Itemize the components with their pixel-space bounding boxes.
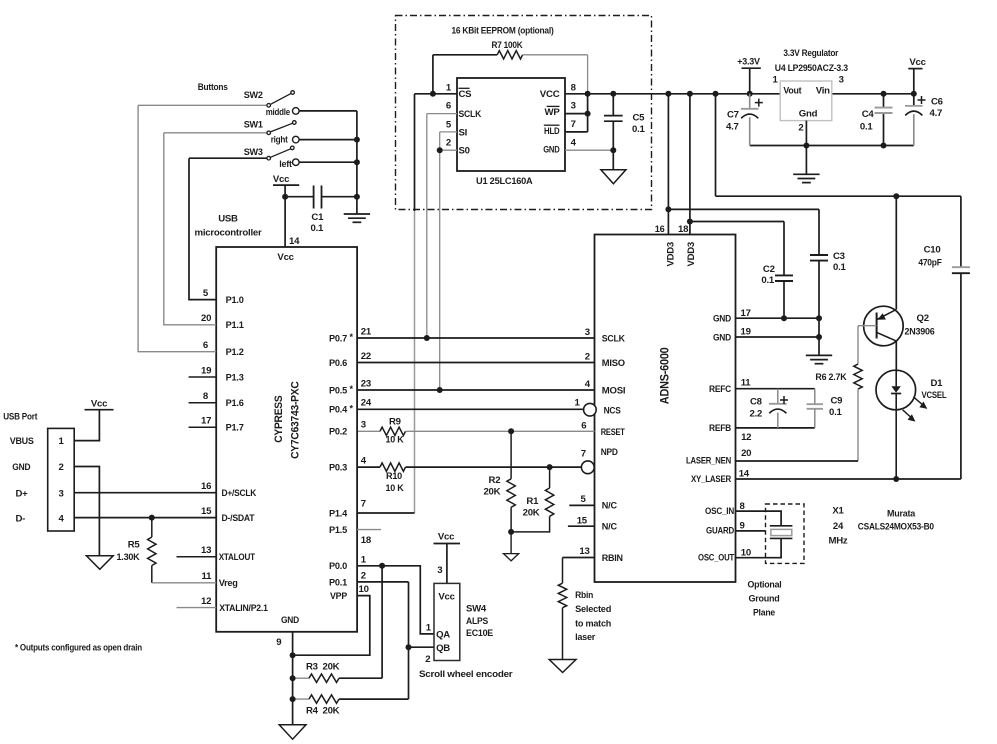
svg-text:ADNS-6000: ADNS-6000 (657, 347, 671, 404)
svg-text:R7 100K: R7 100K (492, 40, 523, 51)
svg-text:Vcc: Vcc (909, 57, 926, 68)
svg-text:CS: CS (459, 89, 473, 100)
svg-text:REFB: REFB (709, 423, 731, 434)
svg-text:7: 7 (361, 499, 366, 510)
svg-text:Selected: Selected (575, 604, 611, 615)
svg-text:10 K: 10 K (386, 483, 404, 494)
pin 18 P1.5 stub (357, 529, 381, 531)
svg-text:P1.2: P1.2 (226, 347, 244, 358)
svg-text:D+/SCLK: D+/SCLK (222, 488, 257, 499)
resistor R10 10K on P0.3 (357, 466, 380, 468)
pin 14 XY_LASER (736, 478, 961, 480)
svg-text:0.1: 0.1 (833, 262, 847, 273)
svg-text:24: 24 (833, 521, 844, 532)
wire Q2 base to R6 (858, 325, 877, 327)
svg-text:XY_LASER: XY_LASER (691, 474, 731, 485)
capacitor C6 4.7 (913, 94, 915, 105)
svg-text:CY7C63743-PXC: CY7C63743-PXC (289, 381, 301, 459)
resistor R6 2.7K (854, 364, 862, 389)
svg-text:LASER_NEN: LASER_NEN (686, 456, 731, 467)
svg-text:10 K: 10 K (386, 435, 404, 446)
svg-text:470pF: 470pF (918, 257, 942, 268)
pin 5 N/C (569, 504, 594, 506)
svg-text:SI: SI (459, 127, 468, 138)
wire GND pin 2 to ground (74, 467, 99, 556)
svg-text:Q2: Q2 (917, 313, 929, 324)
svg-text:13: 13 (579, 546, 589, 557)
transistor Q2 2N3906 (895, 196, 897, 309)
ground (Rbin) (549, 660, 576, 673)
svg-text:6: 6 (446, 101, 451, 112)
svg-text:R2: R2 (489, 475, 501, 486)
wire EEPROM SI down to MOSI line (440, 131, 457, 133)
svg-text:right: right (271, 134, 289, 145)
svg-text:EC10E: EC10E (466, 628, 494, 639)
svg-text:7: 7 (581, 449, 586, 460)
svg-text:CSALS24MOX53-B0: CSALS24MOX53-B0 (858, 522, 934, 533)
svg-text:R9: R9 (389, 416, 401, 427)
pin 11 REFC (736, 388, 815, 390)
resistor R5 1.30K (151, 518, 153, 538)
svg-text:20: 20 (741, 448, 751, 459)
svg-text:20K: 20K (323, 662, 340, 673)
wire U4 Gnd pin (805, 121, 807, 146)
svg-text:P0.6: P0.6 (329, 358, 347, 369)
wire middle contact (299, 110, 357, 112)
capacitor C10 470pF (960, 196, 962, 266)
svg-text:QB: QB (436, 643, 450, 654)
svg-text:2: 2 (446, 138, 451, 149)
svg-text:S0: S0 (459, 145, 470, 156)
svg-text:Vcc: Vcc (91, 399, 108, 410)
wire EEPROM SCLK down to SPI SCLK line (427, 113, 457, 115)
svg-text:10: 10 (359, 584, 369, 595)
wire SW2 to P1.2 (138, 105, 216, 351)
svg-text:REFC: REFC (709, 384, 731, 395)
svg-text:3: 3 (571, 101, 576, 112)
svg-text:0.1: 0.1 (860, 122, 874, 133)
svg-text:23: 23 (361, 378, 371, 389)
svg-text:C9: C9 (831, 396, 843, 407)
svg-text:P1.3: P1.3 (226, 372, 244, 383)
capacitor C5 (612, 94, 614, 115)
svg-text:4: 4 (361, 456, 367, 467)
svg-text:1: 1 (426, 622, 432, 633)
svg-text:2N3906: 2N3906 (905, 326, 935, 337)
svg-text:P1.4: P1.4 (329, 508, 348, 519)
svg-text:20K: 20K (523, 508, 540, 519)
svg-text:0.1: 0.1 (311, 223, 325, 234)
pin 16 VDD3 (667, 94, 669, 235)
svg-text:19: 19 (201, 365, 211, 376)
svg-text:Vreg: Vreg (219, 578, 238, 589)
svg-text:R6 2.7K: R6 2.7K (815, 372, 846, 383)
resistor R1 20K (549, 467, 551, 488)
svg-text:R10: R10 (386, 471, 402, 482)
laser emission arrows (913, 397, 922, 405)
svg-text:Vcc: Vcc (277, 252, 294, 263)
svg-text:4.7: 4.7 (930, 108, 943, 119)
svg-text:21: 21 (361, 326, 372, 337)
svg-text:15: 15 (201, 506, 212, 517)
ground (U4) (805, 146, 807, 175)
ground (C5) (601, 170, 626, 184)
svg-text:9: 9 (276, 637, 281, 648)
svg-text:3: 3 (839, 75, 844, 86)
wire GND pin to C5 (565, 149, 613, 151)
wire R7 left lead down to CS (432, 55, 434, 94)
svg-text:HLD: HLD (544, 126, 560, 137)
pin 15 N/C (568, 525, 595, 527)
svg-text:19: 19 (741, 327, 751, 338)
svg-text:VDD3: VDD3 (664, 242, 675, 266)
svg-text:QA: QA (436, 630, 450, 641)
svg-text:D-/SDAT: D-/SDAT (222, 513, 255, 524)
svg-text:Vcc: Vcc (438, 592, 455, 603)
pin 14 Vcc (284, 197, 286, 247)
pin 13 RBIN (563, 557, 595, 559)
svg-text:4.7: 4.7 (726, 122, 739, 133)
wire EEPROM S0 tied to SI vertical (440, 149, 457, 151)
svg-text:24: 24 (361, 398, 372, 409)
capacitor C2 0.1 (775, 274, 793, 276)
svg-text:14: 14 (289, 236, 300, 247)
svg-text:VDD3: VDD3 (685, 242, 696, 266)
svg-text:MISO: MISO (602, 358, 626, 369)
pin 7 P1.4 (357, 512, 414, 514)
svg-text:MOSI: MOSI (602, 386, 626, 397)
net NPD (R10 to ADNS pin 7, bubble) (406, 466, 582, 468)
svg-text:P1.7: P1.7 (226, 423, 244, 434)
svg-text:U4 LP2950ACZ-3.3: U4 LP2950ACZ-3.3 (775, 63, 848, 74)
svg-text:P1.0: P1.0 (226, 295, 244, 306)
ground (R1/R2) (510, 532, 512, 554)
svg-text:SCLK: SCLK (459, 109, 482, 120)
svg-text:VBUS: VBUS (10, 436, 35, 447)
wire QB (409, 646, 435, 648)
svg-text:P0.1: P0.1 (329, 577, 348, 588)
svg-text:microcontroller: microcontroller (195, 228, 263, 239)
pin 12 XTALIN/P2.1 (177, 607, 217, 609)
wire Vcc to laser driver rail (715, 94, 717, 196)
resistor R3 20K (293, 677, 309, 679)
capacitor C3 0.1 (810, 254, 828, 256)
svg-text:0.1: 0.1 (761, 275, 775, 286)
ground (R3/R4/pin9) (279, 725, 306, 740)
svg-text:R4: R4 (306, 706, 319, 717)
svg-text:GND: GND (281, 615, 299, 626)
svg-text:20K: 20K (483, 487, 500, 498)
pin 19 P1.3 (189, 376, 217, 378)
svg-text:SW2: SW2 (244, 90, 263, 101)
svg-text:12: 12 (741, 432, 751, 443)
wire VDD3-16 branch to C3 (668, 208, 819, 210)
pin 19 GND (736, 336, 820, 338)
crystal X1 resonator (770, 525, 793, 527)
net regulator ground rail (750, 145, 914, 147)
svg-text:WP: WP (545, 107, 561, 118)
svg-text:GND: GND (12, 462, 30, 473)
capacitor C7 4.7 (749, 94, 751, 108)
svg-text:20: 20 (201, 313, 211, 324)
svg-text:+3.3V: +3.3V (737, 57, 760, 68)
pin 17 P1.7 (189, 426, 217, 428)
svg-text:C1: C1 (311, 212, 324, 223)
wire P0.0 to QA (357, 566, 434, 634)
svg-text:12: 12 (201, 596, 211, 607)
svg-text:22: 22 (361, 351, 371, 362)
pin 20 LASER_NEN (736, 460, 859, 462)
svg-text:Plane: Plane (753, 608, 775, 619)
svg-text:Rbin: Rbin (575, 590, 593, 601)
svg-text:SW3: SW3 (244, 147, 263, 158)
svg-text:Buttons: Buttons (198, 82, 228, 93)
svg-text:Gnd: Gnd (799, 109, 818, 120)
EEPROM optional block dashed border (396, 16, 652, 210)
svg-text:SW4: SW4 (466, 604, 487, 615)
pin 13 XTALOUT (177, 556, 217, 558)
svg-text:NCS: NCS (604, 406, 622, 417)
svg-text:C4: C4 (862, 109, 875, 120)
svg-text:2: 2 (585, 351, 590, 362)
optional ground plane dashed box (766, 504, 805, 563)
svg-text:1.30K: 1.30K (117, 552, 140, 563)
net D- (74, 517, 216, 519)
svg-text:GUARD: GUARD (706, 526, 734, 537)
svg-text:laser: laser (575, 632, 595, 643)
svg-text:R3: R3 (306, 662, 318, 673)
svg-text:XTALOUT: XTALOUT (219, 552, 256, 563)
svg-text:Ground: Ground (749, 594, 780, 605)
svg-text:17: 17 (201, 416, 211, 427)
svg-text:RESET: RESET (601, 427, 625, 438)
net MOSI (P0.5 to ADNS pin 4) (357, 389, 594, 391)
IC CYPRESS CY7C63743-PXC (216, 247, 357, 632)
net MISO (P0.6 to ADNS pin 2) (357, 362, 594, 364)
diode D1 VCSEL (876, 370, 916, 410)
svg-text:D1: D1 (931, 378, 944, 389)
pin 9 GUARD (736, 530, 766, 532)
svg-text:OSC_OUT: OSC_OUT (698, 552, 734, 563)
svg-text:R1: R1 (526, 496, 539, 507)
capacitor C9 0.1 (807, 403, 823, 405)
wire SW1 to P1.1 (164, 133, 216, 325)
pin 8 OSC_IN (736, 511, 782, 526)
svg-text:15: 15 (577, 516, 588, 527)
wire CS to left and down to P1.4 (415, 93, 458, 95)
svg-text:P0.4: P0.4 (329, 405, 348, 416)
svg-text:VCSEL: VCSEL (922, 390, 947, 401)
svg-text:16: 16 (201, 481, 211, 492)
svg-text:RBIN: RBIN (602, 553, 623, 564)
svg-text:Vout: Vout (783, 86, 802, 97)
svg-text:0.1: 0.1 (632, 124, 646, 135)
wire left contact (299, 161, 357, 163)
svg-text:3: 3 (58, 488, 63, 499)
svg-text:P1.5: P1.5 (329, 525, 348, 536)
svg-text:CYPRESS: CYPRESS (273, 396, 285, 443)
pin 10 OSC_OUT (736, 538, 782, 557)
svg-text:MHz: MHz (829, 535, 848, 546)
svg-text:9: 9 (740, 520, 745, 531)
svg-text:SCLK: SCLK (602, 334, 625, 345)
svg-text:SW1: SW1 (244, 119, 264, 130)
svg-text:2: 2 (798, 122, 803, 133)
svg-text:C8: C8 (750, 397, 763, 408)
svg-text:3: 3 (437, 565, 442, 576)
svg-text:11: 11 (202, 571, 213, 582)
wire right contact (299, 139, 357, 141)
wire VBUS to Vcc (74, 410, 99, 441)
capacitor C1 0.1 (285, 196, 314, 198)
pin 17 GND (736, 317, 820, 319)
svg-text:C2: C2 (763, 264, 775, 275)
svg-text:GND: GND (713, 314, 731, 325)
svg-text:Vcc: Vcc (438, 532, 455, 543)
svg-text:0.1: 0.1 (829, 407, 843, 418)
svg-text:1: 1 (361, 554, 367, 565)
svg-text:GND: GND (713, 332, 731, 343)
svg-text:Vcc: Vcc (273, 174, 290, 185)
wire R7 right lead down to Vcc rail (587, 55, 589, 94)
svg-text:2.2: 2.2 (750, 408, 763, 419)
resistor R2 20K (510, 431, 512, 479)
svg-text:X1: X1 (832, 506, 844, 517)
svg-text:14: 14 (739, 469, 750, 480)
svg-text:USB Port: USB Port (3, 412, 38, 423)
wire R5 to Vreg (152, 582, 216, 584)
resistor Rbin (562, 558, 564, 584)
svg-text:2: 2 (361, 570, 366, 581)
svg-text:Scroll wheel encoder: Scroll wheel encoder (419, 669, 513, 680)
svg-text:C6: C6 (931, 97, 943, 108)
svg-text:Optional: Optional (748, 580, 782, 591)
svg-text:6: 6 (581, 421, 586, 432)
svg-text:P0.7: P0.7 (329, 333, 347, 344)
svg-text:2: 2 (58, 462, 63, 473)
capacitor C4 0.1 (883, 94, 885, 107)
net NCS (P0.4 to ADNS pin 1, active low bubble) (357, 408, 583, 410)
wire SW3 to P1.0 (189, 158, 216, 299)
svg-text:N/C: N/C (602, 501, 617, 512)
svg-text:C7: C7 (727, 110, 739, 121)
svg-text:P1.1: P1.1 (226, 320, 245, 331)
svg-text:1: 1 (773, 75, 779, 86)
svg-text:ALPS: ALPS (466, 616, 489, 627)
ground (ADNS GND pins) (818, 337, 820, 355)
svg-text:18: 18 (361, 535, 372, 546)
svg-text:P0.2: P0.2 (329, 427, 347, 438)
svg-text:P0.3: P0.3 (329, 463, 347, 474)
svg-text:3: 3 (585, 327, 590, 338)
resistor R4 20K (293, 698, 309, 700)
svg-text:16 KBit EEPROM (optional): 16 KBit EEPROM (optional) (452, 26, 554, 37)
svg-text:* Outputs configured as open d: * Outputs configured as open drain (15, 643, 142, 654)
capacitor C8 2.2 (777, 389, 779, 404)
wire P0.1 to QB junction (357, 581, 408, 583)
svg-text:GND: GND (543, 145, 560, 156)
svg-text:OSC_IN: OSC_IN (705, 506, 734, 517)
IC U1 25LC160A (457, 78, 565, 171)
svg-text:P0.5: P0.5 (329, 385, 348, 396)
svg-text:C3: C3 (833, 251, 845, 262)
svg-text:3: 3 (361, 420, 366, 431)
ground (USB) (86, 556, 113, 570)
svg-text:XTALIN/P2.1: XTALIN/P2.1 (219, 603, 268, 614)
net D+ (74, 492, 216, 494)
svg-text:NPD: NPD (601, 447, 618, 458)
svg-text:2: 2 (425, 654, 430, 665)
svg-text:P1.6: P1.6 (226, 398, 244, 409)
svg-text:D-: D- (16, 514, 26, 525)
wire VPP to ground rail (293, 596, 370, 656)
net Vcc rail (3.3V) (565, 93, 780, 95)
svg-text:3.3V Regulator: 3.3V Regulator (783, 48, 838, 59)
svg-text:10: 10 (741, 548, 751, 559)
svg-text:to match: to match (575, 618, 611, 629)
svg-text:Vin: Vin (816, 86, 830, 97)
svg-text:N/C: N/C (602, 522, 617, 533)
svg-text:17: 17 (741, 308, 751, 319)
net RESET (R9 to ADNS pin 6) (406, 430, 595, 432)
svg-text:13: 13 (201, 545, 211, 556)
svg-text:11: 11 (741, 378, 752, 389)
svg-text:VCC: VCC (540, 89, 560, 100)
pin 18 VDD3 (689, 94, 691, 235)
pin 12 REFB (736, 427, 815, 429)
ground (buttons/C1) (344, 213, 370, 215)
svg-text:C10: C10 (924, 245, 941, 256)
svg-text:18: 18 (678, 224, 689, 235)
wire R6 to LASER_NEN (857, 389, 859, 461)
pin 8 P1.6 (189, 402, 217, 404)
net SCLK (P0.7 to ADNS pin 3) (357, 337, 594, 339)
resistor R9 10K on P0.2 (357, 430, 380, 432)
svg-text:Murata: Murata (887, 509, 916, 520)
wire VDD3-18 branch to C2 (690, 221, 784, 223)
svg-text:left: left (279, 159, 292, 170)
wire WP/HLD tie to VCC (565, 113, 588, 115)
svg-text:R5: R5 (128, 540, 141, 551)
svg-text:VPP: VPP (330, 591, 348, 602)
svg-text:D+: D+ (16, 488, 29, 499)
svg-text:4: 4 (571, 138, 577, 149)
svg-text:USB: USB (218, 213, 238, 224)
svg-text:C5: C5 (633, 112, 646, 123)
svg-text:7: 7 (571, 119, 576, 130)
svg-text:8: 8 (571, 82, 577, 93)
svg-text:16: 16 (655, 224, 665, 234)
svg-text:5: 5 (581, 494, 587, 505)
svg-text:1: 1 (575, 397, 581, 408)
wire buttons common to ground (356, 111, 358, 214)
svg-text:20K: 20K (323, 706, 340, 717)
IC ADNS-6000 (595, 235, 736, 583)
svg-text:6: 6 (203, 340, 208, 351)
svg-text:P0.0: P0.0 (329, 561, 347, 572)
svg-text:U1 25LC160A: U1 25LC160A (476, 176, 533, 187)
svg-text:middle: middle (266, 107, 290, 118)
